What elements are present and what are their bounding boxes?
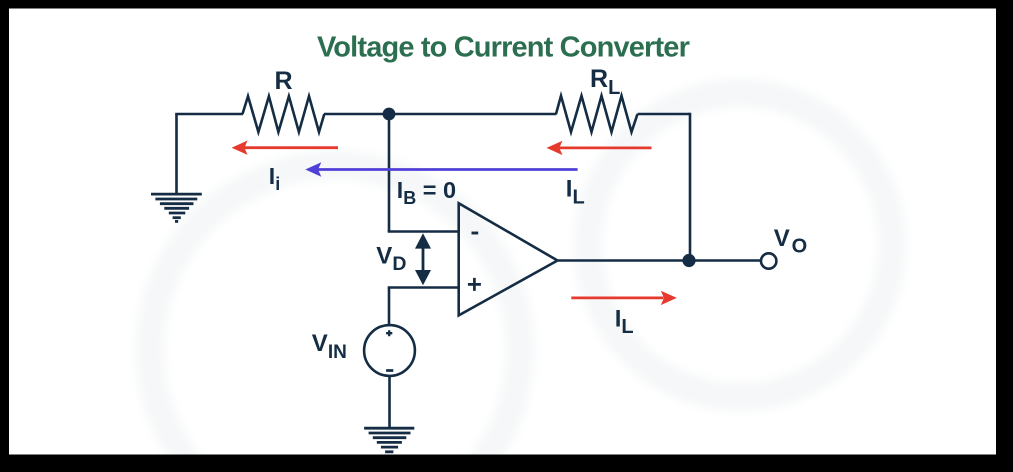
wire RL to right corner	[638, 113, 691, 116]
wire + input down to source	[388, 288, 391, 326]
ground (left)	[151, 194, 202, 221]
arrow IB (blue, left)	[305, 162, 577, 176]
node: top junction dot	[383, 108, 396, 121]
svg-text:R: R	[274, 67, 292, 95]
voltage source V_IN circle	[364, 325, 415, 376]
wire source to ground	[388, 376, 391, 428]
op-amp U1 triangle	[459, 203, 558, 315]
arrow IL top (red, left)	[547, 141, 652, 155]
source minus sign	[386, 369, 393, 372]
op-amp minus sign	[472, 232, 479, 235]
wire output horizontal	[558, 259, 762, 262]
wire top-left horizontal	[175, 113, 243, 116]
V_D double arrow	[415, 233, 431, 285]
svg-text:Voltage to Current Converter: Voltage to Current Converter	[317, 32, 690, 64]
arrow IL output (red, right)	[571, 291, 677, 305]
resistor R	[243, 96, 325, 132]
arrow Ii (red, left)	[232, 141, 338, 155]
wire left vertical to ground	[175, 114, 178, 194]
resistor RL	[556, 96, 638, 132]
terminal Vo open circle	[761, 253, 776, 268]
wire junction down to inverting input	[388, 114, 391, 232]
node: output junction dot	[682, 254, 695, 267]
source plus sign	[386, 330, 392, 336]
wire R to RL	[324, 113, 557, 116]
wire to non-inverting input	[388, 286, 459, 289]
black frame	[0, 0, 1013, 9]
op-amp plus sign	[468, 278, 481, 291]
ground (bottom)	[364, 428, 414, 452]
wire right vertical	[689, 113, 692, 261]
wire to inverting input	[388, 230, 459, 233]
